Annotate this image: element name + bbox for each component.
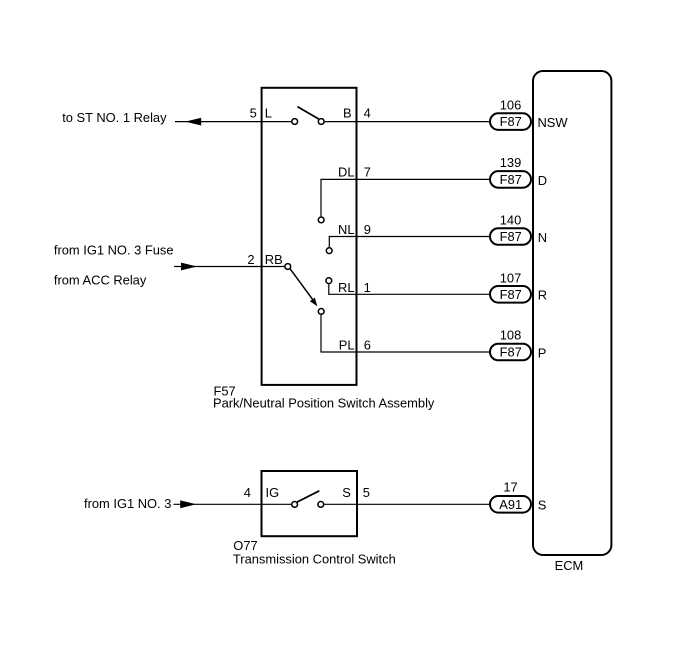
switch SW1 blade (open, pivot at B) [297, 107, 318, 119]
svg-text:4: 4 [244, 485, 251, 500]
svg-text:NSW: NSW [538, 115, 569, 130]
terminal oval F87 (pin 108, P) [490, 344, 531, 361]
svg-text:4: 4 [364, 106, 371, 121]
ECM block U1 [533, 71, 611, 555]
wire: DL (pin 7) to ECM terminal F87-139 [320, 178, 490, 180]
svg-text:IG: IG [266, 485, 280, 500]
svg-text:N: N [538, 230, 547, 245]
wire: from IG1 NO. 3 Fuse / ACC Relay into F57 pin 2 (RB) [174, 266, 285, 268]
contact NL (circle) [326, 248, 332, 254]
svg-text:F87: F87 [500, 229, 522, 244]
wire: RL (pin 1) to ECM terminal F87-107 [328, 293, 490, 295]
svg-text:F87: F87 [500, 172, 522, 187]
svg-text:F87: F87 [500, 287, 522, 302]
svg-text:5: 5 [250, 106, 257, 121]
svg-text:D: D [538, 173, 547, 188]
svg-text:ECM: ECM [555, 558, 584, 573]
switch SW2 contact S (circle) [318, 502, 324, 508]
arrowhead pointing right (from IG1 NO. 3 Fuse / ACC Relay) [181, 263, 197, 271]
svg-text:R: R [538, 288, 547, 303]
svg-text:from ACC Relay: from ACC Relay [54, 272, 147, 287]
svg-text:106: 106 [500, 98, 522, 113]
switch SW2 contact IG (circle) [292, 502, 298, 508]
svg-text:17: 17 [503, 479, 517, 494]
contact DL (circle) [318, 217, 324, 223]
svg-text:B: B [343, 106, 352, 121]
svg-text:1: 1 [364, 280, 371, 295]
switch SW2 blade (open, pivot at IG) [297, 491, 319, 502]
switch SW1 wiper blade from RB with arrowhead [290, 269, 313, 300]
svg-text:A91: A91 [499, 497, 522, 512]
svg-text:2: 2 [247, 252, 254, 267]
wire: S (pin 5) to ECM terminal A91-17 [324, 503, 491, 505]
wire: PL stub vertical [320, 315, 322, 352]
svg-text:Transmission Control Switch: Transmission Control Switch [233, 551, 396, 566]
wire: B (pin 4) to ECM terminal F87-106 [324, 121, 490, 123]
svg-text:RB: RB [265, 252, 283, 267]
terminal oval F87 (pin 107, R) [490, 286, 531, 303]
svg-text:F87: F87 [500, 114, 522, 129]
svg-text:L: L [265, 106, 272, 121]
wire: RL stub vertical [328, 284, 330, 294]
contact RB common (circle) [285, 264, 291, 270]
wire: NL (pin 9) to ECM terminal F87-140 [329, 236, 491, 238]
svg-text:to ST NO. 1 Relay: to ST NO. 1 Relay [62, 110, 167, 125]
terminal oval F87 (pin 140, N) [490, 228, 531, 245]
wire: to ST NO. 1 Relay lead into F57 pin 5 (L) [175, 121, 291, 123]
svg-text:PL: PL [339, 338, 355, 353]
terminal oval F87 (pin 106, NSW) [490, 113, 531, 130]
wire: from IG1 NO. 3 lead into O77 pin 4 (IG) [174, 503, 292, 505]
switch SW1 contact B (circle) [318, 119, 324, 125]
terminal oval F87 (pin 139, D) [490, 171, 531, 188]
svg-text:from IG1 NO. 3 Fuse: from IG1 NO. 3 Fuse [54, 242, 174, 257]
arrowhead pointing right (from IG1 NO. 3) [180, 500, 196, 508]
svg-text:F87: F87 [500, 345, 522, 360]
contact PL (circle) [318, 309, 324, 315]
wire: PL (pin 6) to ECM terminal F87-108 [320, 351, 490, 353]
contact RL (circle) [326, 278, 332, 284]
svg-text:from IG1 NO. 3: from IG1 NO. 3 [84, 496, 171, 511]
svg-text:S: S [342, 485, 351, 500]
connector block O77 (Transmission Control Switch) [262, 471, 358, 536]
svg-text:7: 7 [364, 165, 371, 180]
wire: DL stub vertical [320, 179, 322, 216]
svg-text:S: S [538, 498, 547, 513]
svg-text:140: 140 [500, 213, 522, 228]
terminal oval A91 (pin 17, S) [490, 496, 531, 513]
svg-text:P: P [538, 345, 547, 360]
svg-text:5: 5 [363, 485, 370, 500]
arrowhead pointing left (to ST NO. 1 Relay) [185, 118, 201, 126]
svg-text:NL: NL [338, 222, 354, 237]
svg-text:9: 9 [364, 222, 371, 237]
switch SW1 contact L (circle) [292, 119, 298, 125]
svg-text:DL: DL [338, 165, 354, 180]
svg-text:6: 6 [364, 338, 371, 353]
svg-text:Park/Neutral Position Switch A: Park/Neutral Position Switch Assembly [213, 396, 435, 411]
wire: NL stub vertical [328, 237, 330, 248]
connector block F57 (Park/Neutral Position Switch Assembly) [262, 88, 357, 385]
svg-text:RL: RL [338, 280, 354, 295]
svg-text:108: 108 [500, 328, 522, 343]
svg-text:107: 107 [500, 270, 522, 285]
svg-text:139: 139 [500, 155, 522, 170]
